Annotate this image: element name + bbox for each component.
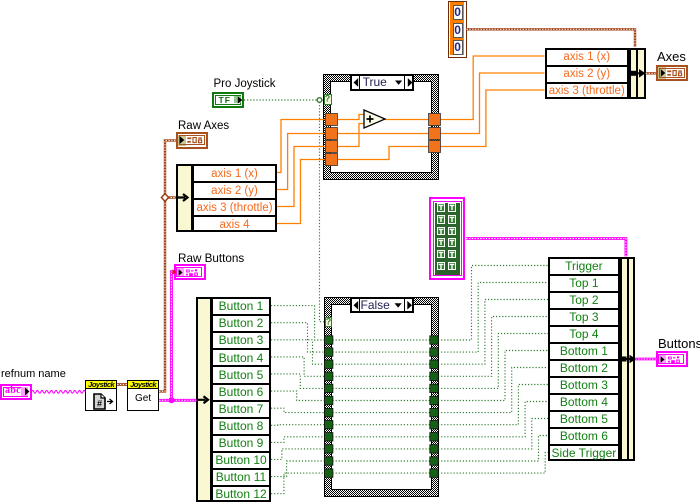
wire refnum: Joystick open to Joystick Get xyxy=(117,383,127,386)
tunnel (orange) True-right 1 xyxy=(429,114,441,126)
wire boolean: False case passthrough 10 xyxy=(333,448,431,450)
wire boolean: False tunnel out to Trigger xyxy=(438,266,548,341)
unbundle-by-name node: axes name rows xyxy=(192,164,277,232)
subVI node Joystick open (refnum) xyxy=(85,380,117,412)
wire boolean: Button 5 to False tunnel xyxy=(271,374,325,389)
wire numeric: True tunnel out 1 to bundle axis 1 xyxy=(440,56,545,120)
wire boolean: Button 8 to False tunnel xyxy=(271,424,325,427)
wire boolean: Button 4 to False tunnel xyxy=(271,357,325,376)
wire boolean: False tunnel out to Bottom 1 xyxy=(438,351,548,401)
wire boolean: False tunnel out to Bottom 3 xyxy=(438,385,548,425)
unbundle-by-name node: button name rows xyxy=(211,297,271,502)
bundle element label Bottom 4 xyxy=(549,394,619,411)
bundle element label Bottom 3 xyxy=(549,377,619,394)
bundle-by-name node: Buttons name rows xyxy=(548,257,620,461)
wire junction (buttons cluster) xyxy=(169,397,175,403)
wire cluster: axes branch to unbundle input xyxy=(165,196,176,198)
label Pro Joystick xyxy=(214,78,276,90)
numeric constant 0 (element 3) xyxy=(453,40,463,55)
tunnel (orange) True-right 2 xyxy=(429,128,441,140)
wire numeric: tunnel 3 to add bottom input xyxy=(337,124,365,147)
tunnel (orange) True-left 3 xyxy=(326,141,338,153)
tunnel (green) False-right 3 xyxy=(430,360,438,368)
tunnel (green) False-right 12 xyxy=(430,469,438,477)
label Axes xyxy=(657,51,686,63)
wire boolean: False tunnel out to Bottom 6 xyxy=(438,436,548,462)
boolean constant T (row 5 col 1) xyxy=(437,250,445,259)
wire boolean: Button 7 to False tunnel xyxy=(271,408,325,412)
wire boolean: False case passthrough 9 xyxy=(333,436,431,438)
case selector label True xyxy=(350,74,415,91)
wire cluster: Get axes output up to Raw Axes indicator xyxy=(159,140,176,391)
wire boolean: Button 11 to False tunnel xyxy=(271,461,325,477)
tunnel (green) False-left 4 xyxy=(325,372,333,380)
input arrow of buttons unbundle xyxy=(198,396,209,403)
wire numeric: axis 1 to True case tunnel xyxy=(277,120,326,173)
label Raw Axes xyxy=(178,120,229,132)
label refnum name xyxy=(1,368,66,380)
wire boolean: Pro Joystick to True case selector xyxy=(244,99,324,101)
wire boolean: False tunnel out to Top 3 xyxy=(438,317,548,377)
tunnel (green) False-right 11 xyxy=(430,457,438,465)
tunnel (green) False-right 9 xyxy=(430,433,438,441)
unbundle element label Button 3 xyxy=(212,332,270,349)
boolean constant T (row 2 col 2) xyxy=(448,215,456,224)
tunnel (green) False-right 7 xyxy=(430,408,438,416)
unbundle element label axis 2 (y) xyxy=(193,183,276,200)
unbundle element label Button 4 xyxy=(212,350,270,367)
bundle-by-name node: Buttons cream columns xyxy=(620,257,636,461)
indicator icon Buttons (cluster of booleans) xyxy=(656,351,688,367)
tunnel (green) False-right 5 xyxy=(430,384,438,392)
wire boolean: Button 2 to False tunnel xyxy=(271,323,325,352)
wire numeric: axis 3 to True case tunnel xyxy=(277,147,326,207)
wire numeric: tunnel 2 passthrough xyxy=(337,133,429,135)
bundle element label Top 1 xyxy=(549,275,619,292)
wire boolean: Button 12 to False tunnel xyxy=(271,473,325,494)
wire boolean: False tunnel out to Top 4 xyxy=(438,334,548,389)
bundle element label Bottom 5 xyxy=(549,411,619,428)
wire cluster: Get buttons output to unbundle input xyxy=(159,399,196,402)
boolean constant T (row 4 col 1) xyxy=(437,238,445,247)
wire boolean: False case passthrough 2 xyxy=(333,351,431,353)
case structure (True case, axes) xyxy=(323,74,440,180)
wire boolean: Button 9 to False tunnel xyxy=(271,437,325,443)
tunnel (green) False-right 8 xyxy=(430,421,438,429)
input arrow of axes unbundle xyxy=(177,194,188,201)
unbundle element label Button 10 xyxy=(212,452,270,469)
wire boolean: False tunnel out to Top 2 xyxy=(438,300,548,365)
wire cluster: Buttons bundle output to Buttons indicator xyxy=(635,358,656,361)
bundle element label Bottom 1 xyxy=(549,343,619,360)
tunnel (green) False-left 6 xyxy=(325,396,333,404)
wire string: refnum name to Joystick open xyxy=(32,390,86,393)
output arrow of Axes bundle xyxy=(630,69,646,78)
wire boolean: False case passthrough 5 xyxy=(333,387,431,389)
wire junction (axes cluster) xyxy=(161,194,168,202)
bundle element label axis 3 (throttle) xyxy=(546,83,629,100)
indicator icon Raw Buttons (cluster of booleans) xyxy=(174,264,206,280)
case selector terminal ? (False structure) xyxy=(325,317,333,328)
wire boolean: False case passthrough 8 xyxy=(333,424,431,426)
wire boolean: False case passthrough 6 xyxy=(333,400,431,402)
label Raw Buttons xyxy=(178,253,244,265)
unbundle element label Button 1 xyxy=(212,298,270,315)
subVI node Joystick Get xyxy=(127,380,159,412)
case structure (False case, buttons) xyxy=(324,297,439,498)
wire boolean: Button 6 to False tunnel xyxy=(271,391,325,400)
wire boolean: False tunnel out to Bottom 5 xyxy=(438,419,548,449)
indicator icon Axes (cluster of numerics) xyxy=(656,65,688,82)
boolean constant T (row 1 col 2) xyxy=(448,203,456,212)
unbundle-by-name node: raw buttons (cream selector column) xyxy=(196,297,212,502)
bundle-by-name node: Axes name rows xyxy=(545,48,630,99)
tunnel (orange) True-right 3 xyxy=(429,141,441,153)
unbundle element label axis 1 (x) xyxy=(193,166,276,183)
wire numeric: True tunnel out 2 to bundle axis 2 xyxy=(440,73,545,134)
unbundle element label Button 5 xyxy=(212,367,270,384)
tunnel (green) False-left 9 xyxy=(325,433,333,441)
bundle element label Top 3 xyxy=(549,309,619,326)
bundle-by-name node: Axes cream columns xyxy=(629,48,646,99)
boolean constant T (row 3 col 2) xyxy=(448,227,456,236)
wire boolean: False case passthrough 7 xyxy=(333,412,431,414)
numeric cluster constant (0,0,0) xyxy=(448,1,467,59)
boolean constant T (row 6 col 2) xyxy=(448,262,456,271)
tunnel (green) False-right 6 xyxy=(430,396,438,404)
wire boolean: selector branch down to False case selector xyxy=(320,102,325,322)
wire numeric: True tunnel out 3 to bundle axis 3 xyxy=(440,90,545,147)
unbundle element label axis 4 xyxy=(193,217,276,234)
boolean cluster constant (12x T) xyxy=(429,197,465,280)
unbundle element label Button 8 xyxy=(212,418,270,435)
bundle element label axis 1 (x) xyxy=(546,49,629,66)
case selector label False xyxy=(350,297,414,314)
tunnel (green) False-right 2 xyxy=(430,348,438,356)
boolean constant T (row 1 col 1) xyxy=(437,203,445,212)
wire boolean: Button 1 to False tunnel xyxy=(271,306,325,340)
case selector terminal ? (True structure) xyxy=(324,94,333,105)
wire boolean: Button 3 to False tunnel xyxy=(271,340,325,364)
tunnel (orange) True-left 1 xyxy=(326,114,338,126)
unbundle-by-name node: raw axes (cream selector column) xyxy=(176,164,193,232)
boolean constant T (row 2 col 1) xyxy=(437,215,445,224)
string control refnum name (abc) xyxy=(0,384,32,400)
tunnel (green) False-left 12 xyxy=(325,469,333,477)
wire boolean: False case passthrough 4 xyxy=(333,375,431,377)
tunnel (orange) True-left 2 xyxy=(326,128,338,140)
tunnel (green) False-left 2 xyxy=(325,348,333,356)
wire numeric: tunnel 4 to right tunnel 3 xyxy=(337,147,429,160)
wire numeric: add output to right tunnel 1 xyxy=(385,119,430,121)
unbundle element label Button 11 xyxy=(212,469,270,486)
unbundle element label Button 9 xyxy=(212,435,270,452)
unbundle element label Button 12 xyxy=(212,486,270,503)
wire boolean: Button 10 to False tunnel xyxy=(271,449,325,460)
tunnel (green) False-left 3 xyxy=(325,360,333,368)
bundle element label Bottom 6 xyxy=(549,428,619,445)
wire boolean: False case passthrough 3 xyxy=(333,363,431,365)
wire cluster: T/F constant to Buttons bundle input xyxy=(466,239,626,257)
wire cluster: 0,0,0 constant to Axes bundle input xyxy=(467,29,636,47)
bundle element label Bottom 2 xyxy=(549,360,619,377)
wire cluster: Axes bundle output to Axes indicator xyxy=(646,72,657,74)
wire terminal arrow into Raw Buttons xyxy=(172,269,177,275)
bundle element label Top 2 xyxy=(549,292,619,309)
bundle element label Trigger xyxy=(549,258,619,275)
wire numeric: axis 2 to True case tunnel xyxy=(277,134,326,190)
tunnel (green) False-right 4 xyxy=(430,372,438,380)
boolean constant T (row 4 col 2) xyxy=(448,238,456,247)
unbundle element label Button 2 xyxy=(212,315,270,332)
boolean constant T (row 6 col 1) xyxy=(437,262,445,271)
numeric constant 0 (element 1) xyxy=(453,5,463,20)
tunnel (green) False-left 7 xyxy=(325,408,333,416)
wire boolean: False tunnel out to Side Trigger xyxy=(438,453,548,474)
wire boolean: False tunnel out to Top 1 xyxy=(438,283,548,353)
wire boolean: False tunnel out to Bottom 2 xyxy=(438,368,548,413)
tunnel (orange) True-left 4 xyxy=(326,154,338,166)
bundle element label Side Trigger xyxy=(549,445,619,462)
wire numeric: axis 4 to True case tunnel xyxy=(277,160,326,224)
wire boolean: False case passthrough 12 xyxy=(333,472,431,474)
tunnel (green) False-right 1 xyxy=(430,336,438,344)
indicator icon Raw Axes (cluster of numerics) xyxy=(176,132,208,149)
tunnel (green) False-left 1 xyxy=(325,336,333,344)
boolean constant T (row 3 col 1) xyxy=(437,227,445,236)
label Buttons xyxy=(658,338,700,350)
tunnel (green) False-left 5 xyxy=(325,384,333,392)
bundle element label Top 4 xyxy=(549,326,619,343)
tunnel (green) False-right 10 xyxy=(430,445,438,453)
wire boolean: False case passthrough 1 xyxy=(333,339,431,341)
wire boolean: False tunnel out to Bottom 4 xyxy=(438,402,548,437)
tunnel (green) False-left 8 xyxy=(325,421,333,429)
add function node (+) xyxy=(364,110,385,128)
wire junction ring on boolean selector wire xyxy=(317,98,322,103)
tunnel (green) False-left 10 xyxy=(325,445,333,453)
wire numeric: tunnel 1 to add top input xyxy=(337,115,365,120)
boolean control Pro Joystick (TF) xyxy=(212,92,244,108)
unbundle element label Button 7 xyxy=(212,401,270,418)
numeric constant 0 (element 2) xyxy=(453,23,463,38)
unbundle element label Button 6 xyxy=(212,384,270,401)
output arrow of Buttons bundle xyxy=(620,355,636,364)
unbundle element label axis 3 (throttle) xyxy=(193,200,276,217)
boolean constant T (row 5 col 2) xyxy=(448,250,456,259)
tunnel (green) False-left 11 xyxy=(325,457,333,465)
wire cluster: buttons branch up to Raw Buttons indicator xyxy=(172,272,175,401)
bundle element label axis 2 (y) xyxy=(546,66,629,83)
wire boolean: False case passthrough 11 xyxy=(333,460,431,462)
